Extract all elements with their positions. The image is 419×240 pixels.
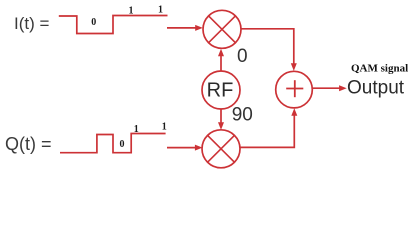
- wire arrow adder to output: [312, 87, 340, 89]
- svg-text:90: 90: [232, 105, 253, 126]
- svg-text:0: 0: [237, 46, 248, 67]
- wire mixer U1 output to adder: [241, 29, 294, 65]
- svg-text:0: 0: [91, 17, 96, 28]
- wire mixer U2 output to adder: [240, 115, 294, 148]
- mixer U2 (Q multiplier): [202, 130, 240, 168]
- adder U4 (summer): [276, 71, 313, 108]
- wire arrow I into mixer: [167, 27, 196, 29]
- svg-text:Q(t) =: Q(t) =: [5, 134, 52, 154]
- wire I(t) waveform: [59, 16, 168, 34]
- svg-text:Output: Output: [347, 78, 405, 99]
- wire Q(t) waveform: [60, 134, 166, 153]
- svg-text:1: 1: [134, 124, 139, 135]
- svg-text:1: 1: [158, 5, 163, 16]
- svg-text:0: 0: [120, 139, 125, 150]
- wire arrow Q into mixer: [167, 147, 196, 149]
- wire arrow RF to mixer U1 (0 deg): [220, 55, 222, 71]
- svg-text:I(t) =: I(t) =: [14, 14, 49, 33]
- svg-text:1: 1: [162, 122, 167, 133]
- mixer U1 (I multiplier): [203, 10, 241, 48]
- svg-text:RF: RF: [207, 79, 234, 101]
- oscillator RF U3: [202, 71, 240, 109]
- svg-text:1: 1: [129, 6, 134, 17]
- svg-text:QAM signal: QAM signal: [351, 63, 408, 75]
- wire arrow RF to mixer U2 (90 deg): [220, 109, 222, 123]
